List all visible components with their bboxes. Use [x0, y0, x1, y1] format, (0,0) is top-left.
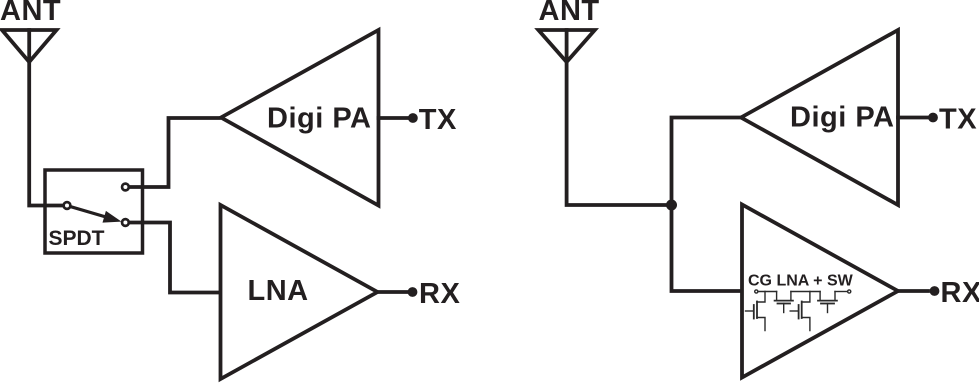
wire: rail segment 3: [835, 291, 848, 293]
amplifier LNA triangle (left): [221, 205, 378, 379]
svg-text:RX: RX: [941, 277, 979, 309]
input port circle: [755, 290, 758, 293]
antenna mast wire (left): [29, 30, 63, 206]
RX node dot (left): [408, 287, 418, 297]
switch arm arrowhead: [103, 211, 122, 223]
svg-text:CG LNA + SW: CG LNA + SW: [748, 273, 854, 290]
op-amp/PA triangle Digi PA (right): [741, 30, 898, 205]
svg-text:LNA: LNA: [248, 275, 309, 307]
antenna (left): [2, 30, 57, 62]
transistor M2 switch NMOS: [776, 292, 778, 301]
svg-text:TX: TX: [419, 104, 457, 136]
svg-text:RX: RX: [419, 278, 460, 310]
transistor M4 switch NMOS: [819, 292, 821, 301]
amplifier triangle CG LNA + SW (right): [742, 205, 898, 378]
switch throw contact (bottom): [122, 219, 129, 226]
svg-text:Digi PA: Digi PA: [267, 103, 371, 135]
switch pole contact: [64, 202, 71, 209]
wire: junction up to PA input: [672, 118, 740, 206]
wire: LNA output to RX: [378, 290, 408, 294]
inner switch-LNA transistor schematic: [746, 290, 851, 331]
TX node dot (right): [928, 113, 938, 123]
switch arm: [72, 207, 111, 218]
output port circle: [848, 290, 851, 293]
svg-text:TX: TX: [939, 104, 977, 136]
wire: LNA output to RX (right): [898, 289, 928, 293]
TX node dot (left): [408, 113, 418, 123]
SPDT box: [45, 170, 143, 253]
wire: junction down to LNA input (right): [672, 205, 741, 291]
wire: rail segment 2: [791, 291, 820, 293]
antenna mast wire (right): [567, 30, 672, 205]
wire: PA output to TX: [379, 116, 408, 120]
junction node dot: [666, 200, 677, 211]
antenna (right): [538, 30, 594, 62]
wire: top throw to PA input: [130, 118, 219, 187]
wire: rail segment 1: [758, 291, 777, 293]
op-amp/PA triangle U1 Digi PA (left): [221, 30, 379, 206]
transistor M3 common-gate NMOS: [790, 310, 798, 312]
switch throw contact (top): [122, 184, 129, 191]
svg-text:Digi PA: Digi PA: [790, 102, 894, 134]
svg-text:ANT: ANT: [539, 0, 600, 27]
wire: PA output to TX (right): [898, 116, 927, 120]
wire: bottom throw to LNA input: [130, 223, 219, 293]
RX node dot (right): [930, 286, 940, 296]
transistor M1 common-gate NMOS: [746, 310, 754, 312]
svg-text:ANT: ANT: [0, 0, 61, 27]
svg-text:SPDT: SPDT: [49, 227, 105, 250]
